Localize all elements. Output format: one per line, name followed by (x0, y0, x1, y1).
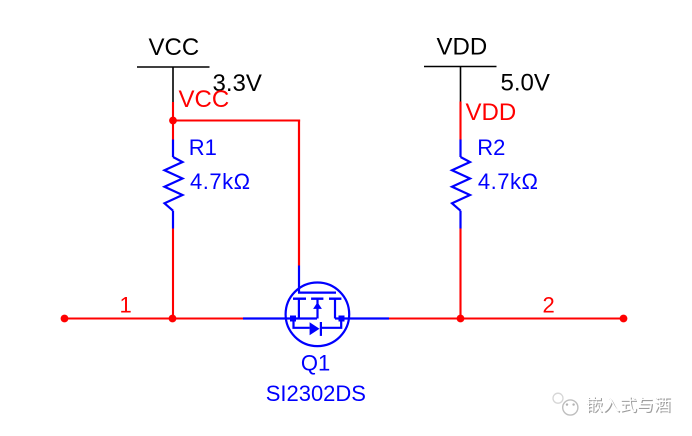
pin junction square right (339, 316, 345, 322)
svg-text:VCC: VCC (179, 86, 230, 113)
pin 2 source stub (243, 317, 317, 319)
svg-text:Q1: Q1 (301, 350, 330, 375)
resistor R2 (452, 140, 470, 229)
watermark text 嵌入式与酒 (embossed) (587, 396, 672, 413)
power symbol VCC (137, 67, 210, 102)
body arrow (313, 302, 322, 309)
wire node 1 (left rail) (65, 317, 244, 319)
wire VDD vertical (459, 102, 461, 140)
svg-text:4.7kΩ: 4.7kΩ (478, 169, 539, 194)
svg-text:5.0V: 5.0V (501, 70, 550, 97)
body circle (286, 283, 350, 347)
watermark logo (553, 393, 578, 415)
svg-text:VDD: VDD (437, 34, 488, 61)
svg-text:2: 2 (543, 293, 555, 318)
body diode triangle (310, 322, 320, 335)
channel segment right (329, 298, 341, 300)
drain stub vertical (334, 299, 336, 319)
pin 3 drain stub (335, 317, 389, 319)
svg-text:VCC: VCC (149, 34, 200, 61)
wire node 2 (right rail) (389, 317, 624, 319)
terminal dot left (61, 315, 69, 323)
wire gate vertical (298, 120, 300, 266)
junction VCC node (169, 117, 177, 125)
transistor Q1 (SI2302DS MOSFET) (243, 266, 389, 347)
pin 1 gate stub (298, 266, 300, 293)
pin junction square left (290, 316, 296, 322)
body stub vertical (316, 299, 318, 319)
svg-text:R2: R2 (477, 135, 505, 160)
svg-text:4.7kΩ: 4.7kΩ (190, 169, 251, 194)
wire R1 to node 1 (172, 229, 174, 319)
wire VCC to gate horizontal (173, 119, 300, 121)
junction node 1 / R1 (169, 315, 177, 323)
terminal dot right (620, 315, 628, 323)
power symbol VDD (424, 67, 497, 102)
junction node 2 / R2 (457, 315, 465, 323)
svg-text:1: 1 (120, 293, 132, 318)
wire R2 to node 2 (459, 229, 461, 319)
svg-text:SI2302DS: SI2302DS (266, 381, 366, 406)
channel segment left (293, 298, 306, 300)
body diode loop (294, 319, 310, 328)
svg-text:R1: R1 (189, 135, 217, 160)
svg-text:VDD: VDD (466, 99, 517, 126)
gate bar (298, 291, 336, 293)
channel segment middle (311, 298, 323, 300)
wire VCC vertical (172, 102, 174, 140)
source stub vertical (298, 299, 300, 319)
resistor R1 (165, 140, 183, 229)
